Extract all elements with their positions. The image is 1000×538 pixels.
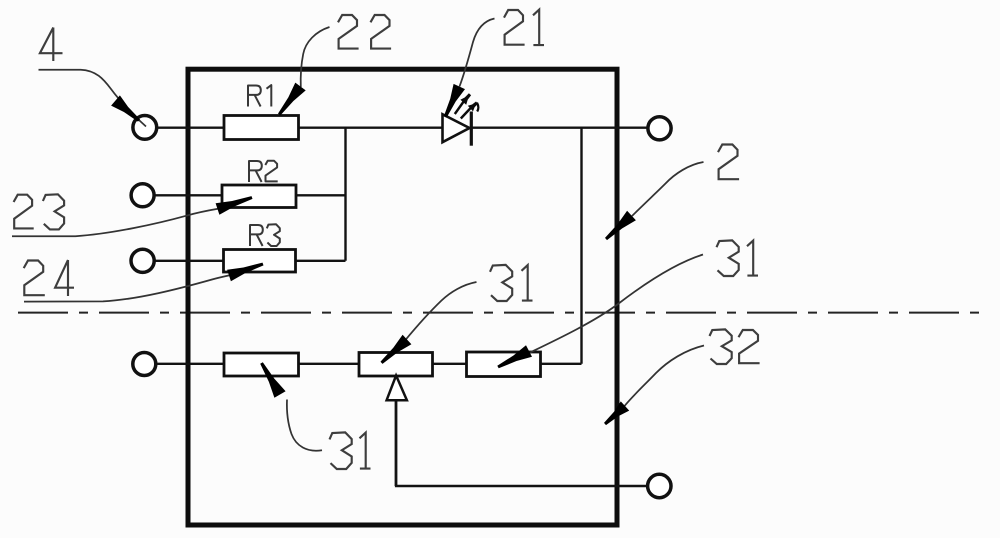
leader arrowhead for second label 31	[381, 335, 412, 364]
leader line for label 23	[12, 209, 218, 236]
wiper arrow of B2	[387, 376, 407, 401]
lower element box B3	[467, 352, 541, 377]
wire: R1 to LED anode	[298, 126, 444, 128]
leader arrowhead for label 4	[111, 95, 140, 121]
wire: terminal T3 to R3	[154, 260, 225, 262]
leader arrowhead for label 32	[604, 401, 629, 425]
terminal T5	[648, 117, 671, 140]
label 21	[504, 10, 544, 46]
leader line for label 2	[632, 162, 704, 216]
wire: R2 to bus	[295, 194, 346, 196]
wire: bottom output to terminal T6	[395, 485, 648, 487]
terminal T2	[131, 184, 154, 207]
terminal T6	[648, 474, 671, 497]
leader line for second label 31	[405, 282, 477, 341]
leader arrowhead for label 23	[216, 196, 253, 215]
label R2	[249, 161, 278, 182]
LED D (21) triangle	[443, 114, 470, 142]
wire: lower box B2 to B3	[432, 363, 468, 365]
resistor R3 box	[224, 250, 296, 273]
label 24	[24, 260, 74, 296]
label 2	[718, 145, 739, 180]
wire: vertical bus joining R1 R2 R3 outputs	[344, 128, 346, 261]
leader line for label 22	[301, 27, 330, 87]
leader arrowhead for third label 31	[497, 345, 532, 368]
LED emission arrow b	[461, 106, 473, 119]
wire: wiper stem down	[395, 400, 398, 487]
wire: vertical riser from top wire to lower row	[580, 128, 582, 364]
terminal T4	[133, 353, 156, 376]
resistor R2 box	[222, 185, 296, 208]
label R3	[250, 224, 280, 246]
label R1	[248, 85, 271, 106]
wire: lower box B1 to B2	[298, 363, 361, 365]
wire: lower box B3 to vertical riser	[540, 363, 582, 365]
label 22	[338, 15, 391, 49]
terminal T1	[133, 116, 157, 140]
label 4	[40, 28, 63, 62]
leader line for first label 31	[287, 400, 322, 451]
leader line for label 4	[39, 70, 147, 127]
first label 31	[330, 432, 371, 469]
leader line for label 21	[460, 19, 495, 87]
leader arrowhead for label 24	[227, 263, 263, 282]
terminal T3	[131, 249, 154, 272]
leader arrowhead for first label 31	[260, 362, 285, 398]
leader line for third label 31	[530, 255, 703, 353]
wire: terminal T2 to R2	[154, 194, 223, 196]
resistor R1 box	[224, 116, 299, 140]
LED cathode bar	[470, 112, 473, 146]
wire: terminal T4 to lower resistor row	[156, 363, 226, 365]
wire: terminal T1 to R1	[157, 126, 226, 128]
second label 31	[490, 265, 533, 301]
leader line for label 24	[24, 275, 230, 301]
leader arrowhead for label 22	[278, 83, 306, 116]
dashed center line	[18, 312, 988, 314]
component box 2 (optocoupler outline)	[188, 69, 617, 525]
label 32	[710, 329, 760, 364]
lower element box B1	[224, 353, 299, 376]
leader line for label 32	[625, 346, 705, 407]
LED emission arrow a	[455, 98, 467, 115]
third label 31	[717, 240, 759, 276]
label 23	[14, 194, 65, 229]
wire: R3 to bus	[295, 260, 346, 262]
leader arrowhead for label 21	[444, 84, 465, 118]
leader arrowhead for label 2	[605, 211, 636, 240]
lower element box B2 (with wiper)	[359, 353, 433, 377]
wire: LED cathode to right terminal	[471, 126, 647, 128]
